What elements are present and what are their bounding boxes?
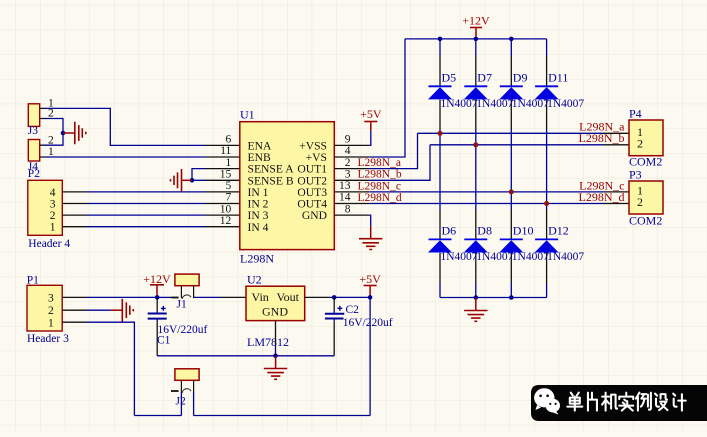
svg-text:15: 15 xyxy=(220,169,232,181)
diode D11 1N4007 xyxy=(535,71,585,110)
svg-text:3: 3 xyxy=(50,199,56,211)
svg-text:11: 11 xyxy=(220,145,231,157)
wire U2 GND pin down xyxy=(275,321,277,356)
connector P1 Header 3 xyxy=(27,274,69,345)
svg-text:LM7812: LM7812 xyxy=(247,335,289,349)
svg-text:1N4007: 1N4007 xyxy=(476,251,513,263)
watermark glyph 实 xyxy=(619,393,633,411)
watermark WeChat logo xyxy=(534,388,560,414)
net label L298N_c (right) xyxy=(579,178,624,192)
wire U1 +VS pin4 to +12V rail xyxy=(334,39,405,157)
svg-text:1N4007: 1N4007 xyxy=(476,98,513,110)
op-amp/IC U1 L298N body xyxy=(220,108,351,266)
wire U1 GND pin8 to ground xyxy=(334,215,370,227)
connector P2 Header 4 xyxy=(28,168,71,250)
junction J3/J4 ground node xyxy=(61,131,66,136)
wire P2.1 to U1 IN4 xyxy=(62,226,240,228)
svg-text:13: 13 xyxy=(339,180,351,192)
junction +12V rail at D5 column xyxy=(438,37,443,42)
svg-text:D11: D11 xyxy=(548,71,568,85)
svg-text:1: 1 xyxy=(226,157,232,169)
wire diode column 4 xyxy=(546,39,548,298)
diode D10 1N4007 xyxy=(499,224,549,263)
svg-text:2: 2 xyxy=(50,210,56,222)
svg-text:5: 5 xyxy=(226,180,232,192)
ground (U2) xyxy=(264,356,287,380)
svg-text:P3: P3 xyxy=(629,168,642,182)
svg-text:L298N_c: L298N_c xyxy=(358,180,401,192)
diode D7 1N4007 xyxy=(464,71,514,110)
svg-text:COM2: COM2 xyxy=(629,214,662,228)
voltage regulator U2 LM7812 xyxy=(246,273,305,349)
jumper J1 xyxy=(172,274,200,310)
svg-text:+12V: +12V xyxy=(462,14,490,28)
wire P2.3 to U1 IN2 xyxy=(62,203,240,205)
svg-text:C2: C2 xyxy=(346,304,360,316)
svg-text:GND: GND xyxy=(302,209,327,222)
svg-text:2: 2 xyxy=(345,157,351,169)
svg-text:1N4007: 1N4007 xyxy=(547,251,584,263)
svg-text:J2: J2 xyxy=(176,396,186,408)
svg-text:1: 1 xyxy=(50,222,56,234)
svg-text:8: 8 xyxy=(345,203,351,215)
diode D5 1N4007 xyxy=(428,71,478,110)
junction lower rail at D8 column xyxy=(474,295,479,300)
svg-text:J3: J3 xyxy=(28,125,38,137)
wire lower diode common rail xyxy=(440,297,547,299)
watermark glyph 单 xyxy=(567,393,582,411)
connector J3 xyxy=(28,98,54,138)
junction +5V node xyxy=(368,295,373,300)
svg-text:10: 10 xyxy=(220,203,232,215)
svg-text:D7: D7 xyxy=(477,71,492,85)
junction L298N_d at D11 column xyxy=(544,201,549,206)
power +5V (bottom) xyxy=(359,272,381,297)
wire J3.2 / J4.2 to ground xyxy=(40,119,63,146)
junction L298N_a at D5 column xyxy=(438,131,443,136)
wire net L298N_a : U1 OUT1 pin2 to P4.1 xyxy=(334,133,629,168)
svg-text:P1: P1 xyxy=(27,274,39,286)
wire U1 +VSS pin9 to +5V xyxy=(334,131,371,145)
wire +12V top rail xyxy=(405,38,547,40)
net label L298N_c (left) xyxy=(358,180,401,192)
svg-text:D9: D9 xyxy=(513,71,528,85)
svg-text:2: 2 xyxy=(48,305,54,317)
svg-text:U2: U2 xyxy=(247,273,262,287)
jumper J2 xyxy=(171,369,199,416)
svg-text:3: 3 xyxy=(48,293,54,305)
svg-text:L298N_d: L298N_d xyxy=(358,192,402,204)
wire P1.1 down to J2 xyxy=(62,322,181,415)
junction L298N_b at D7 column xyxy=(473,142,478,147)
svg-text:7: 7 xyxy=(226,192,232,204)
wire J4.1 to U1 ENB xyxy=(40,156,240,158)
net label L298N_a (left) xyxy=(358,157,401,169)
wire +5V node down to J2 rail xyxy=(194,297,371,415)
connector P4 COM2 xyxy=(629,107,663,169)
svg-text:C1: C1 xyxy=(157,335,171,347)
svg-text:+5V: +5V xyxy=(360,107,382,121)
watermark glyph 片 xyxy=(588,393,597,411)
svg-text:P4: P4 xyxy=(629,107,642,121)
net label L298N_b (right) xyxy=(579,131,625,145)
svg-text:L298N: L298N xyxy=(240,252,274,266)
junction U2 GND node xyxy=(273,354,278,359)
ground (P1.2) xyxy=(122,299,133,322)
svg-text:J1: J1 xyxy=(177,299,187,311)
svg-text:1N4007: 1N4007 xyxy=(512,98,549,110)
ground (J3/J4) xyxy=(63,122,86,145)
svg-text:L298N_b: L298N_b xyxy=(579,131,625,145)
wire P1.2 to ground xyxy=(62,309,122,311)
watermark glyph 计 xyxy=(673,394,686,411)
wire P1.3 to +12V node xyxy=(62,296,157,298)
svg-text:+5V: +5V xyxy=(359,272,381,286)
watermark glyph 设 xyxy=(655,394,668,411)
svg-text:D6: D6 xyxy=(442,224,457,238)
svg-text:4: 4 xyxy=(345,145,351,157)
wire diode column 2 xyxy=(475,39,477,298)
wire U1 SENSE A / SENSE B to ground xyxy=(192,169,240,181)
junction SENSE ground node xyxy=(190,178,195,183)
net label L298N_d (left) xyxy=(358,192,402,204)
svg-text:IN 4: IN 4 xyxy=(248,221,269,234)
junction lower rail at D10 column xyxy=(509,295,514,300)
svg-text:1N4007: 1N4007 xyxy=(547,98,584,110)
svg-text:L298N_b: L298N_b xyxy=(358,169,402,181)
watermark glyph 例 xyxy=(636,393,651,411)
junction L298N_c at D9 column xyxy=(509,189,514,194)
wire net L298N_c : U1 OUT3 pin13 to P3.1 xyxy=(334,191,629,193)
wire P2.4 to U1 IN1 xyxy=(62,191,240,193)
diode D12 1N4007 xyxy=(535,224,585,263)
wire bottom common (C1 to C2) xyxy=(157,355,334,357)
svg-text:Vin: Vin xyxy=(252,290,269,304)
svg-text:3: 3 xyxy=(345,169,351,181)
net label L298N_a (right) xyxy=(579,120,625,134)
svg-text:2: 2 xyxy=(48,108,54,120)
junction +12V node xyxy=(155,295,160,300)
net label L298N_b (left) xyxy=(358,169,402,181)
svg-text:2: 2 xyxy=(637,195,643,209)
wire +12V node to J1.1 xyxy=(157,296,171,298)
connector J4 xyxy=(28,134,54,172)
power +12V (top) xyxy=(462,14,490,38)
power +5V (near U1 +VSS) xyxy=(360,107,382,131)
wire J1.2 to U2 Vin xyxy=(194,296,246,298)
svg-text:COM2: COM2 xyxy=(629,154,662,168)
wire diode column 1 xyxy=(439,39,441,298)
ground (lower diode rail) xyxy=(464,298,487,322)
svg-text:1N4007: 1N4007 xyxy=(441,251,478,263)
svg-text:4: 4 xyxy=(50,187,56,199)
svg-text:L298N_d: L298N_d xyxy=(579,190,625,204)
ground (U1 pin8) xyxy=(359,227,382,250)
wire net L298N_b : U1 OUT2 pin3 to P4.2 xyxy=(334,145,629,181)
diode D6 1N4007 xyxy=(428,224,478,263)
svg-text:D12: D12 xyxy=(548,224,569,238)
svg-text:Header 3: Header 3 xyxy=(27,333,69,345)
svg-text:L298N_a: L298N_a xyxy=(358,157,401,169)
svg-text:9: 9 xyxy=(345,134,351,146)
svg-text:1N4007: 1N4007 xyxy=(441,98,478,110)
svg-text:1: 1 xyxy=(48,317,54,329)
watermark glyph 机 xyxy=(602,393,617,411)
diode D8 1N4007 xyxy=(464,224,514,263)
svg-text:1N4007: 1N4007 xyxy=(512,251,549,263)
svg-text:14: 14 xyxy=(339,192,351,204)
wire net L298N_d : U1 OUT4 pin14 to P3.2 xyxy=(334,203,629,205)
svg-text:Vout: Vout xyxy=(277,290,300,304)
wire diode column 3 xyxy=(510,39,512,298)
svg-text:D8: D8 xyxy=(477,224,492,238)
junction +12V rail at D7 column xyxy=(474,37,479,42)
svg-text:U1: U1 xyxy=(240,108,255,122)
svg-text:12: 12 xyxy=(220,215,232,227)
ground (SENSE) xyxy=(171,169,193,192)
junction +12V rail at D9 column xyxy=(509,37,514,42)
svg-text:2: 2 xyxy=(637,136,643,150)
power +12V (bottom) xyxy=(143,272,171,296)
svg-text:Header 4: Header 4 xyxy=(28,238,70,250)
connector P3 COM2 xyxy=(629,168,663,228)
capacitor C1 16V/220uf xyxy=(148,297,208,355)
wire U2 Vout to +5V node xyxy=(305,296,370,298)
wire P2.2 to U1 IN3 xyxy=(62,214,240,216)
svg-text:D5: D5 xyxy=(442,71,457,85)
capacitor C2 16V/220uf xyxy=(325,297,393,355)
wire J3.1 to U1 ENA xyxy=(40,108,240,145)
watermark banner (black) xyxy=(531,385,707,421)
diode D9 1N4007 xyxy=(499,71,549,110)
svg-text:GND: GND xyxy=(262,305,288,319)
svg-text:P2: P2 xyxy=(28,168,40,180)
junction C2 top node xyxy=(332,295,337,300)
svg-text:16V/220uf: 16V/220uf xyxy=(343,317,393,329)
svg-text:D10: D10 xyxy=(513,224,534,238)
svg-text:6: 6 xyxy=(226,134,232,146)
net label L298N_d (right) xyxy=(579,190,625,204)
